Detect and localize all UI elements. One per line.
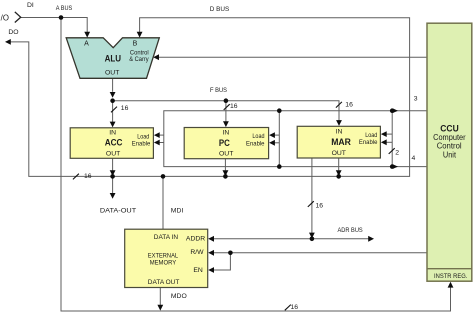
svg-text:& Carry: & Carry bbox=[129, 56, 149, 63]
svg-text:Load: Load bbox=[252, 133, 264, 140]
svg-text:F BUS: F BUS bbox=[210, 87, 227, 94]
svg-text:MDI: MDI bbox=[171, 208, 184, 215]
svg-text:Unit: Unit bbox=[443, 150, 457, 159]
svg-text:CCU: CCU bbox=[440, 124, 459, 134]
svg-text:4: 4 bbox=[412, 155, 416, 162]
svg-text:ALU: ALU bbox=[105, 54, 121, 65]
svg-text:16: 16 bbox=[345, 102, 353, 109]
svg-text:OUT: OUT bbox=[219, 151, 233, 158]
svg-text:3: 3 bbox=[414, 95, 418, 102]
svg-text:OUT: OUT bbox=[106, 151, 120, 158]
svg-text:ADR BUS: ADR BUS bbox=[338, 227, 364, 234]
svg-text:MDO: MDO bbox=[171, 293, 187, 300]
svg-text:B: B bbox=[133, 41, 138, 48]
svg-text:16: 16 bbox=[291, 304, 299, 311]
svg-text:DO: DO bbox=[8, 29, 18, 36]
svg-text:IN: IN bbox=[222, 129, 229, 136]
svg-text:Load: Load bbox=[365, 132, 377, 139]
svg-text:I/O: I/O bbox=[0, 14, 9, 23]
svg-text:ADDR: ADDR bbox=[186, 235, 205, 242]
svg-text:16: 16 bbox=[316, 203, 324, 210]
svg-text:INSTR REG.: INSTR REG. bbox=[434, 273, 467, 280]
svg-text:2: 2 bbox=[395, 149, 399, 156]
svg-text:A BUS: A BUS bbox=[56, 5, 73, 12]
svg-text:DATA IN: DATA IN bbox=[154, 234, 178, 241]
svg-text:IN: IN bbox=[336, 128, 343, 135]
svg-text:D BUS: D BUS bbox=[210, 6, 230, 13]
svg-text:Enable: Enable bbox=[246, 141, 265, 148]
svg-text:MEMORY: MEMORY bbox=[150, 260, 177, 267]
svg-text:ACC: ACC bbox=[105, 138, 123, 149]
svg-text:A: A bbox=[84, 41, 89, 48]
svg-text:OUT: OUT bbox=[332, 150, 346, 157]
svg-text:EN: EN bbox=[193, 267, 203, 274]
svg-text:EXTERNAL: EXTERNAL bbox=[148, 252, 178, 259]
svg-text:PC: PC bbox=[219, 138, 230, 149]
svg-text:16: 16 bbox=[230, 103, 238, 110]
svg-text:R/W: R/W bbox=[190, 249, 204, 256]
svg-text:MAR: MAR bbox=[331, 137, 351, 148]
svg-text:Enable: Enable bbox=[359, 139, 378, 146]
svg-text:DATA-OUT: DATA-OUT bbox=[100, 208, 136, 215]
svg-text:OUT: OUT bbox=[105, 69, 119, 76]
svg-text:16: 16 bbox=[84, 173, 92, 180]
svg-text:IN: IN bbox=[109, 130, 116, 137]
svg-text:Enable: Enable bbox=[132, 141, 151, 148]
svg-text:Load: Load bbox=[137, 133, 149, 140]
svg-text:DI: DI bbox=[27, 2, 34, 9]
svg-text:DATA OUT: DATA OUT bbox=[148, 279, 180, 286]
svg-text:16: 16 bbox=[121, 105, 129, 112]
